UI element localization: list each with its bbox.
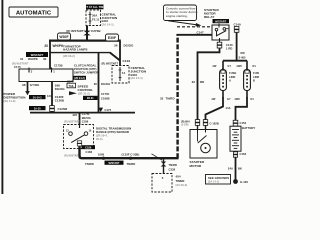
svg-text:C147: C147 (197, 30, 204, 34)
svg-text:W/START: W/START (108, 162, 120, 165)
svg-text:C186: C186 (86, 150, 93, 154)
svg-text:BATTERY: BATTERY (242, 126, 255, 130)
svg-text:DG/OG: DG/OG (55, 87, 66, 91)
svg-text:(2A 29-2): (2A 29-2) (176, 183, 188, 187)
svg-text:B: B (253, 78, 255, 82)
svg-text:2W0: 2W0 (235, 98, 241, 101)
svg-text:C175F: C175F (101, 92, 110, 96)
svg-text:RD: RD (241, 51, 245, 55)
svg-text:C270B: C270B (91, 29, 101, 33)
svg-text:RELAY: RELAY (204, 15, 215, 19)
svg-text:32: 32 (192, 80, 196, 84)
svg-text:RD: RD (200, 80, 204, 84)
svg-text:24A: 24A (228, 167, 233, 171)
svg-text:(2A 11-2): (2A 11-2) (4, 99, 16, 103)
svg-text:(2A 14-1): (2A 14-1) (102, 22, 114, 26)
svg-text:W/START: W/START (31, 53, 44, 57)
svg-text:(R) W/START: (R) W/START (66, 29, 83, 33)
svg-text:2R-31: 2R-31 (87, 97, 94, 100)
svg-text:(2A 14-1): (2A 14-1) (131, 76, 143, 80)
svg-text:TAIL: TAIL (69, 85, 75, 88)
svg-text:C-162B: C-162B (210, 121, 219, 125)
svg-text:14A: 14A (226, 106, 231, 110)
svg-text:RANGE (DTR) SENSOR: RANGE (DTR) SENSOR (96, 130, 130, 134)
svg-text:TIMER: TIMER (176, 179, 185, 183)
svg-text:C146: C146 (226, 43, 233, 47)
svg-text:(2A 14-1): (2A 14-1) (208, 180, 219, 184)
svg-text:S-080: S-080 (239, 57, 246, 60)
svg-text:2A-14-2: 2A-14-2 (33, 96, 43, 99)
svg-text:TN/RD: TN/RD (166, 96, 175, 100)
svg-text:2A-20: 2A-20 (34, 107, 41, 110)
svg-text:C338: C338 (169, 168, 176, 172)
svg-text:2W: 2W (212, 98, 216, 101)
svg-text:FUSE: FUSE (229, 71, 237, 75)
svg-text:C175F: C175F (82, 112, 91, 116)
svg-text:GY: GY (228, 65, 232, 68)
svg-text:HAZARD LAMPS: HAZARD LAMPS (63, 48, 88, 52)
svg-text:SEE GROUNDS: SEE GROUNDS (208, 176, 229, 180)
svg-text:GY: GY (227, 98, 231, 101)
svg-text:C186: C186 (82, 120, 89, 124)
svg-text:G-100: G-100 (240, 180, 248, 184)
svg-text:D1: D1 (251, 98, 255, 101)
svg-text:7A: 7A (122, 71, 126, 75)
svg-text:FUSE: FUSE (253, 71, 259, 75)
svg-text:AUTOMATIC: AUTOMATIC (16, 10, 52, 16)
svg-text:CONTROL: CONTROL (78, 88, 94, 92)
svg-text:WH/PK: WH/PK (28, 57, 39, 61)
svg-text:36: 36 (114, 43, 118, 47)
svg-text:MOTOR: MOTOR (190, 164, 202, 168)
svg-text:engine starting.: engine starting. (166, 14, 188, 18)
svg-text:(2R 31-2): (2R 31-2) (78, 91, 90, 95)
svg-text:E30F: E30F (108, 36, 116, 40)
svg-text:(2-DR): (2-DR) (181, 123, 189, 126)
svg-text:33: 33 (160, 96, 164, 100)
svg-text:BK: BK (238, 167, 242, 171)
svg-text:(R) W/START: (R) W/START (64, 121, 80, 124)
svg-text:C126M: C126M (58, 107, 68, 111)
svg-text:(R) W/START: (R) W/START (102, 61, 119, 65)
svg-text:HOT AT ALL TIMES: HOT AT ALL TIMES (82, 5, 107, 9)
svg-text:2W0: 2W0 (237, 65, 243, 68)
svg-text:C175: C175 (105, 108, 112, 112)
svg-text:W30F: W30F (59, 35, 68, 39)
svg-text:C186B: C186B (101, 96, 110, 100)
svg-text:DG/OG: DG/OG (124, 43, 135, 47)
svg-text:(2R 24-2): (2R 24-2) (74, 77, 85, 80)
svg-text:C126B: C126B (55, 99, 64, 103)
svg-text:C152: C152 (240, 121, 247, 125)
svg-text:GY/OE: GY/OE (30, 83, 39, 87)
svg-text:(2R 29-4,: (2R 29-4, (96, 134, 108, 138)
svg-text:SWITCH JUMPER: SWITCH JUMPER (74, 70, 98, 74)
svg-text:20: 20 (44, 44, 48, 48)
svg-text:36: 36 (94, 82, 98, 86)
svg-text:2W: 2W (213, 65, 217, 68)
svg-text:1 RD: 1 RD (226, 47, 232, 51)
svg-text:D1: D1 (253, 65, 257, 68)
svg-text:BK/OG: BK/OG (82, 116, 91, 120)
svg-text:TN/RD: TN/RD (85, 162, 94, 166)
svg-text:DG/OG: DG/OG (101, 82, 110, 86)
svg-text:(R) W/START: (R) W/START (64, 154, 80, 157)
svg-text:32F: 32F (73, 113, 78, 117)
svg-text:C175B: C175B (54, 64, 63, 68)
svg-text:C186: C186 (85, 146, 92, 149)
svg-text:TN/RD: TN/RD (169, 163, 177, 167)
svg-text:TN/RD: TN/RD (127, 162, 136, 166)
svg-text:4X4: 4X4 (176, 174, 182, 178)
svg-text:31: 31 (20, 57, 24, 61)
svg-text:C162: C162 (240, 152, 247, 156)
svg-text:A: A (229, 78, 231, 82)
svg-text:LINK: LINK (253, 75, 259, 79)
svg-text:C149: C149 (123, 59, 131, 63)
svg-text:1060: 1060 (98, 152, 105, 156)
svg-text:(2R 96-2): (2R 96-2) (63, 54, 75, 58)
svg-text:(2.33F C-33B): (2.33F C-33B) (122, 152, 140, 156)
svg-text:C175: C175 (14, 65, 21, 69)
svg-text:30: 30 (43, 57, 47, 61)
svg-text:F2.11: F2.11 (92, 17, 100, 21)
svg-text:W/START: W/START (215, 20, 227, 23)
svg-text:LINK: LINK (229, 75, 235, 79)
svg-text:29-5): 29-5) (96, 137, 103, 141)
svg-text:98: 98 (22, 83, 26, 87)
svg-text:124: 124 (47, 94, 52, 98)
svg-text:C149: C149 (234, 23, 241, 27)
